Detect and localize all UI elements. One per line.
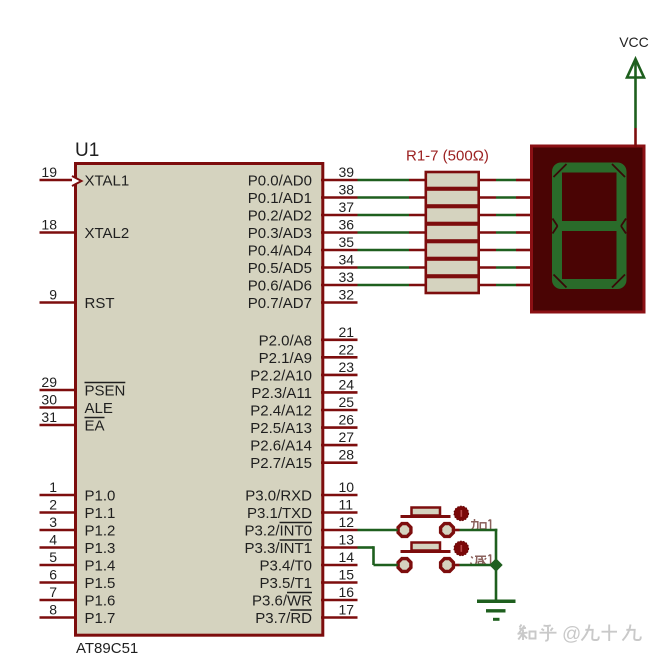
pin number 17 — [339, 602, 355, 618]
pin 36 P0.3/AD3 stub wire — [321, 231, 358, 234]
pin 27 P2.6/A14 stub wire — [321, 444, 358, 447]
svg-text:16: 16 — [339, 584, 355, 600]
pin 2 P1.1 stub wire — [40, 511, 78, 514]
pin 23 P2.2/A10 stub wire — [321, 374, 358, 377]
svg-text:22: 22 — [339, 341, 355, 357]
svg-text:P1.6: P1.6 — [85, 593, 116, 610]
svg-text:10: 10 — [339, 479, 355, 495]
svg-text:P0.5/AD5: P0.5/AD5 — [248, 260, 312, 277]
svg-text:P1.0: P1.0 — [85, 488, 116, 505]
svg-text:7: 7 — [49, 584, 57, 600]
pin 5 P1.4 stub wire — [40, 564, 78, 567]
pin label P0.5/AD5 — [248, 260, 312, 277]
pin 11 P3.1/TXD stub wire — [321, 511, 358, 514]
pin label P0.7/AD7 — [248, 295, 312, 312]
svg-text:P1.4: P1.4 — [85, 558, 116, 575]
pin number 33 — [339, 269, 355, 285]
svg-text:P2.4/A12: P2.4/A12 — [250, 403, 312, 420]
svg-text:P1.7: P1.7 — [85, 610, 116, 627]
pin label EA — [85, 418, 105, 435]
pin 19 XTAL1 stub wire — [40, 179, 78, 182]
pin label P2.5/A13 — [250, 420, 312, 437]
svg-text:17: 17 — [339, 602, 355, 618]
pin 25 P2.4/A12 stub wire — [321, 409, 358, 412]
svg-text:21: 21 — [339, 324, 355, 340]
pin label P3.0/RXD — [245, 488, 312, 505]
wire resistor R7 to display segment pin — [479, 284, 530, 287]
pin number 9 — [49, 287, 57, 303]
pin 24 P2.3/A11 stub wire — [321, 391, 358, 394]
resistor network label R1-7 (500&#937;) — [406, 148, 489, 165]
pin number 30 — [41, 392, 57, 408]
pin 32 P0.7/AD7 stub wire — [321, 301, 358, 304]
pin label PSEN — [85, 383, 126, 400]
svg-text:R1-7 (500Ω): R1-7 (500Ω) — [406, 148, 489, 165]
pin label P0.4/AD4 — [248, 243, 312, 260]
power VCC arrow symbol — [627, 59, 644, 128]
pin label XTAL1 — [85, 173, 130, 190]
svg-text:@: @ — [562, 624, 581, 645]
pin number 16 — [339, 584, 355, 600]
push button SW1 actuator knob — [454, 506, 469, 521]
svg-text:P2.5/A13: P2.5/A13 — [250, 420, 312, 437]
wire button SW1 to ground net corner — [454, 529, 498, 532]
wire P0.2 to resistor R3 — [358, 214, 427, 217]
pin 22 P2.1/A9 stub wire — [321, 356, 358, 359]
pin label P1.6 — [85, 593, 116, 610]
resistor R7 body — [426, 277, 479, 293]
pin label P3.6/WR — [252, 593, 312, 610]
svg-text:9: 9 — [49, 287, 57, 303]
svg-text:23: 23 — [339, 359, 355, 375]
pin label P1.0 — [85, 488, 116, 505]
pin 16 P3.6/WR stub wire — [321, 599, 358, 602]
button SW1 label &#21152;1 (add 1) — [471, 519, 491, 530]
svg-text:31: 31 — [41, 409, 57, 425]
wire P0.6 to resistor R7 — [358, 284, 427, 287]
wire button SW2 to ground junction — [454, 564, 491, 567]
svg-text:P2.6/A14: P2.6/A14 — [250, 438, 312, 455]
pin label P3.1/TXD — [247, 505, 312, 522]
resistor R3 body — [426, 207, 479, 223]
svg-text:19: 19 — [41, 164, 57, 180]
svg-text:P2.7/A15: P2.7/A15 — [250, 455, 312, 472]
pin label P3.2/INT0 — [244, 523, 312, 540]
svg-text:XTAL1: XTAL1 — [85, 173, 130, 190]
push button SW2 right terminal — [441, 559, 454, 572]
pin 7 P1.6 stub wire — [40, 599, 78, 602]
resistor R6 body — [426, 260, 479, 276]
pin label P1.5 — [85, 575, 116, 592]
svg-text:P3.4/T0: P3.4/T0 — [259, 558, 312, 575]
svg-text:P3.1/TXD: P3.1/TXD — [247, 505, 312, 522]
svg-text:14: 14 — [339, 549, 355, 565]
push button SW2 cap — [401, 543, 451, 552]
button SW2 label &#20943;1 (minus 1) — [471, 555, 491, 566]
pin number 19 — [41, 164, 57, 180]
pin label P2.4/A12 — [250, 403, 312, 420]
svg-text:34: 34 — [339, 252, 355, 268]
display common anode pin stub to VCC — [634, 128, 637, 147]
pin 14 P3.4/T0 stub wire — [321, 564, 358, 567]
svg-text:2: 2 — [49, 497, 57, 513]
pin number 37 — [339, 199, 355, 215]
svg-text:39: 39 — [339, 164, 355, 180]
pin number 35 — [339, 234, 355, 250]
svg-text:EA: EA — [85, 418, 105, 435]
pin number 22 — [339, 341, 355, 357]
svg-text:P0.4/AD4: P0.4/AD4 — [248, 243, 312, 260]
pin number 7 — [49, 584, 57, 600]
pin number 3 — [49, 514, 57, 530]
svg-text:27: 27 — [339, 429, 355, 445]
svg-text:24: 24 — [339, 376, 355, 392]
svg-text:P3.5/T1: P3.5/T1 — [259, 575, 312, 592]
push button SW2 left terminal — [398, 559, 411, 572]
svg-text:AT89C51: AT89C51 — [76, 640, 138, 657]
pin label P2.3/A11 — [251, 385, 312, 402]
pin label P2.0/A8 — [259, 332, 312, 349]
pin 21 P2.0/A8 stub wire — [321, 338, 358, 341]
pin 34 P0.5/AD5 stub wire — [321, 266, 358, 269]
svg-text:36: 36 — [339, 217, 355, 233]
svg-text:6: 6 — [49, 567, 57, 583]
pin 31 EA stub wire — [40, 424, 78, 427]
svg-text:ALE: ALE — [85, 400, 113, 417]
pin 1 P1.0 stub wire — [40, 494, 78, 497]
refdes U1 — [75, 140, 99, 161]
pin 29 PSEN stub wire — [40, 389, 78, 392]
push button SW1 left terminal — [398, 524, 411, 537]
pin number 31 — [41, 409, 57, 425]
svg-text:12: 12 — [339, 514, 355, 530]
pin 12 P3.2/INT0 stub wire — [321, 529, 358, 532]
pin 39 P0.0/AD0 stub wire — [321, 179, 358, 182]
pin label P1.1 — [85, 505, 116, 522]
value AT89C51 — [76, 640, 138, 657]
7-segment display body — [532, 146, 645, 312]
pin label P2.7/A15 — [250, 455, 312, 472]
pin 15 P3.5/T1 stub wire — [321, 581, 358, 584]
pin 13 P3.3/INT1 stub wire — [321, 546, 358, 549]
wire P3.3/INT1 jog to button SW2 — [358, 546, 398, 565]
wire P0.0 to resistor R1 — [358, 179, 427, 182]
push button SW2 actuator knob — [454, 541, 469, 556]
XTAL1 clock input arrow — [72, 176, 82, 186]
pin 17 P3.7/RD stub wire — [321, 616, 358, 619]
pin number 39 — [339, 164, 355, 180]
svg-text:28: 28 — [339, 447, 355, 463]
pin number 5 — [49, 549, 57, 565]
pin number 26 — [339, 412, 355, 428]
svg-text:XTAL2: XTAL2 — [85, 225, 130, 242]
display segment separation notches — [553, 164, 627, 288]
svg-text:PSEN: PSEN — [85, 383, 126, 400]
pin 6 P1.5 stub wire — [40, 581, 78, 584]
pin number 27 — [339, 429, 355, 445]
resistor R1 body — [426, 172, 479, 188]
pin number 13 — [339, 532, 355, 548]
svg-text:P3.0/RXD: P3.0/RXD — [245, 488, 312, 505]
power VCC label — [619, 34, 649, 50]
wire P0.1 to resistor R2 — [358, 196, 427, 199]
svg-text:8: 8 — [49, 602, 57, 618]
svg-text:P0.2/AD2: P0.2/AD2 — [248, 208, 312, 225]
resistor R5 body — [426, 242, 479, 258]
svg-text:4: 4 — [49, 532, 57, 548]
svg-text:18: 18 — [41, 217, 57, 233]
svg-text:RST: RST — [85, 295, 115, 312]
svg-text:13: 13 — [339, 532, 355, 548]
pin number 29 — [41, 374, 57, 390]
watermark zhihu @jiushijiu — [518, 625, 557, 641]
svg-text:25: 25 — [339, 394, 355, 410]
svg-text:P2.1/A9: P2.1/A9 — [259, 350, 312, 367]
svg-text:P1.3: P1.3 — [85, 540, 116, 557]
pin number 18 — [41, 217, 57, 233]
wire P0.4 to resistor R5 — [358, 249, 427, 252]
vertical ground net wire — [495, 529, 498, 601]
svg-text:P0.3/AD3: P0.3/AD3 — [248, 225, 312, 242]
pin label XTAL2 — [85, 225, 130, 242]
pin label P2.1/A9 — [259, 350, 312, 367]
push button SW1 right terminal — [441, 524, 454, 537]
pin number 28 — [339, 447, 355, 463]
pin number 8 — [49, 602, 57, 618]
svg-text:U1: U1 — [75, 140, 99, 161]
pin label RST — [85, 295, 115, 312]
svg-text:P3.7/RD: P3.7/RD — [255, 610, 312, 627]
svg-text:P0.7/AD7: P0.7/AD7 — [248, 295, 312, 312]
pin number 1 — [49, 479, 57, 495]
svg-text:P1.1: P1.1 — [85, 505, 116, 522]
resistor R4 body — [426, 225, 479, 241]
svg-text:3: 3 — [49, 514, 57, 530]
pin 8 P1.7 stub wire — [40, 616, 78, 619]
pin number 21 — [339, 324, 355, 340]
svg-text:P2.2/A10: P2.2/A10 — [250, 367, 312, 384]
pin label P1.2 — [85, 523, 116, 540]
pin 18 XTAL2 stub wire — [40, 231, 78, 234]
svg-text:P3.3/INT1: P3.3/INT1 — [244, 540, 312, 557]
svg-text:11: 11 — [339, 497, 354, 513]
svg-text:37: 37 — [339, 199, 355, 215]
pin 38 P0.1/AD1 stub wire — [321, 196, 358, 199]
wire resistor R5 to display segment pin — [479, 249, 530, 252]
wire resistor R1 to display segment pin — [479, 179, 530, 182]
ground symbol — [477, 601, 516, 619]
pin number 24 — [339, 376, 355, 392]
pin 33 P0.6/AD6 stub wire — [321, 284, 358, 287]
svg-text:15: 15 — [339, 567, 355, 583]
pin 37 P0.2/AD2 stub wire — [321, 214, 358, 217]
svg-text:VCC: VCC — [619, 34, 649, 50]
svg-text:38: 38 — [339, 182, 355, 198]
pin label P2.6/A14 — [250, 438, 312, 455]
pin number 15 — [339, 567, 355, 583]
svg-text:29: 29 — [41, 374, 57, 390]
pin number 2 — [49, 497, 57, 513]
svg-text:1: 1 — [49, 479, 57, 495]
wire resistor R4 to display segment pin — [479, 231, 530, 234]
pin label P0.3/AD3 — [248, 225, 312, 242]
pin number 38 — [339, 182, 355, 198]
pin 30 ALE stub wire — [40, 406, 78, 409]
svg-text:35: 35 — [339, 234, 355, 250]
svg-text:5: 5 — [49, 549, 57, 565]
pin label P0.0/AD0 — [248, 173, 312, 190]
pin 28 P2.7/A15 stub wire — [321, 461, 358, 464]
pin number 12 — [339, 514, 355, 530]
pin 4 P1.3 stub wire — [40, 546, 78, 549]
wire resistor R3 to display segment pin — [479, 214, 530, 217]
resistor R2 body — [426, 190, 479, 206]
push button SW1 cap — [401, 508, 451, 517]
pin number 32 — [339, 287, 355, 303]
pin number 23 — [339, 359, 355, 375]
pin label P0.1/AD1 — [248, 190, 312, 207]
svg-text:P0.0/AD0: P0.0/AD0 — [248, 173, 312, 190]
pin label P2.2/A10 — [250, 367, 312, 384]
pin label P0.2/AD2 — [248, 208, 312, 225]
pin label P1.7 — [85, 610, 116, 627]
pin number 36 — [339, 217, 355, 233]
pin number 14 — [339, 549, 355, 565]
pin number 10 — [339, 479, 355, 495]
wire P0.5 to resistor R6 — [358, 266, 427, 269]
pin label P3.7/RD — [255, 610, 312, 627]
svg-text:30: 30 — [41, 392, 57, 408]
pin number 25 — [339, 394, 355, 410]
pin 26 P2.5/A13 stub wire — [321, 426, 358, 429]
wire P3.2/INT0 to button SW1 — [358, 529, 398, 532]
pin label P1.3 — [85, 540, 116, 557]
pin 3 P1.2 stub wire — [40, 529, 78, 532]
pin label P3.5/T1 — [259, 575, 312, 592]
pin label P3.3/INT1 — [244, 540, 312, 557]
pin 35 P0.4/AD4 stub wire — [321, 249, 358, 252]
svg-text:P3.6/WR: P3.6/WR — [252, 593, 312, 610]
wire junction dot — [489, 558, 502, 571]
pin number 11 — [339, 497, 354, 513]
pin number 4 — [49, 532, 57, 548]
pin number 34 — [339, 252, 355, 268]
svg-text:32: 32 — [339, 287, 355, 303]
pin label P0.6/AD6 — [248, 278, 312, 295]
pin 9 RST stub wire — [40, 301, 78, 304]
svg-text:26: 26 — [339, 412, 355, 428]
svg-text:P0.1/AD1: P0.1/AD1 — [248, 190, 312, 207]
wire resistor R6 to display segment pin — [479, 266, 530, 269]
pin label ALE — [85, 400, 113, 417]
pin number 6 — [49, 567, 57, 583]
pin label P3.4/T0 — [259, 558, 312, 575]
svg-text:P1.5: P1.5 — [85, 575, 116, 592]
wire resistor R2 to display segment pin — [479, 196, 530, 199]
svg-text:P3.2/INT0: P3.2/INT0 — [244, 523, 312, 540]
svg-text:33: 33 — [339, 269, 355, 285]
svg-text:P2.3/A11: P2.3/A11 — [251, 385, 312, 402]
svg-text:P2.0/A8: P2.0/A8 — [259, 332, 312, 349]
pin label P1.4 — [85, 558, 116, 575]
svg-text:P1.2: P1.2 — [85, 523, 116, 540]
svg-text:P0.6/AD6: P0.6/AD6 — [248, 278, 312, 295]
display digit segment ring (segments A,B,C,D,E,F,G lit) — [552, 163, 627, 290]
IC U1 AT89C51 body — [76, 164, 323, 636]
wire P0.3 to resistor R4 — [358, 231, 427, 234]
pin 10 P3.0/RXD stub wire — [321, 494, 358, 497]
